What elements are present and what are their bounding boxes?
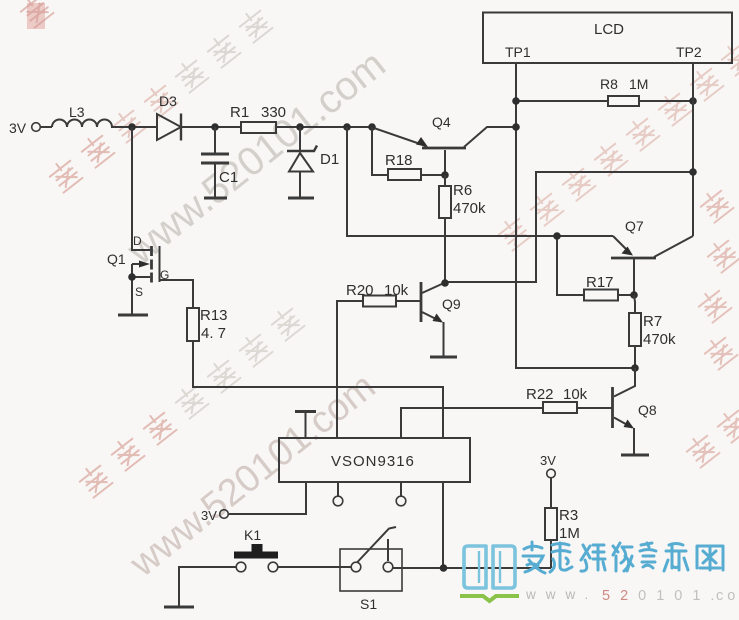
node Q7 base junction	[630, 291, 638, 299]
svg-text:3V: 3V	[540, 453, 556, 468]
svg-text:S: S	[135, 285, 143, 299]
wire rail to diode	[132, 126, 157, 128]
node junction S1/VSON/R3	[440, 564, 448, 572]
node R8 right junction	[689, 97, 697, 105]
node Q4 base junction	[441, 171, 449, 179]
svg-text:3V: 3V	[9, 120, 27, 136]
wire TP1 vertical net	[516, 63, 635, 368]
resistor R6 470k	[439, 175, 451, 283]
switch S1	[340, 527, 402, 591]
resistor R7 470k	[629, 295, 641, 368]
svg-text:10k: 10k	[563, 386, 588, 403]
wire TP2 net to Q9 collector	[445, 172, 693, 282]
resistor R22 10k	[401, 402, 612, 438]
svg-text:3V: 3V	[201, 508, 217, 523]
node R7 bottom junction	[631, 364, 639, 372]
power flag above VSON9316	[295, 412, 316, 439]
svg-text:TP2: TP2	[676, 44, 702, 60]
resistor R17	[557, 236, 634, 301]
zener diode D1	[287, 127, 317, 197]
svg-text:470k: 470k	[643, 331, 676, 348]
svg-text:R17: R17	[586, 274, 614, 291]
svg-text:R6: R6	[453, 182, 472, 199]
site logo green base	[460, 596, 519, 601]
svg-text:Q1: Q1	[107, 251, 126, 267]
svg-text:R1: R1	[230, 104, 249, 121]
resistor R1 330	[241, 122, 276, 133]
svg-text:520101.: 520101.	[602, 588, 724, 604]
svg-text:Q4: Q4	[432, 114, 451, 130]
ground below Q9	[430, 356, 457, 359]
watermarks (decorative)	[46, 6, 273, 193]
svg-text:S1: S1	[360, 596, 377, 612]
svg-text:VSON9316: VSON9316	[331, 453, 415, 470]
svg-text:R18: R18	[385, 152, 413, 169]
transistor Q9 (NPN)	[396, 282, 444, 356]
svg-text:1M: 1M	[629, 76, 648, 92]
wire TP2 vertical net	[692, 63, 694, 236]
node junction rail to R18 branch	[368, 123, 376, 131]
resistor R20 10k	[337, 296, 396, 439]
svg-text:C1: C1	[219, 169, 238, 186]
VSON9316 open pin 1	[333, 482, 343, 506]
wire R1 to Q4 emitter	[276, 126, 374, 128]
ground below Q1 source	[118, 314, 148, 317]
node 3V input terminal	[32, 123, 41, 132]
svg-text:D1: D1	[320, 151, 339, 168]
wire S1 to R3 bottom	[393, 567, 551, 569]
svg-text:TP1: TP1	[505, 44, 531, 60]
node TP1/rail junction	[512, 123, 520, 131]
wire K1 to ground	[179, 567, 236, 606]
svg-text:www.520101.com: www.520101.com	[118, 42, 393, 274]
node Q9 collector junction	[441, 279, 449, 287]
transistor Q8 (NPN)	[613, 368, 636, 454]
node junction at D1	[296, 123, 304, 131]
diode D3	[157, 114, 181, 141]
site logo text (stylized)	[523, 542, 723, 573]
svg-text:Q8: Q8	[638, 402, 657, 418]
node R8 left junction	[512, 97, 520, 105]
svg-text:1M: 1M	[559, 525, 580, 542]
svg-text:R7: R7	[643, 313, 662, 330]
VSON9316 bottom pin to 3V terminal	[220, 482, 306, 518]
ground below K1	[164, 606, 194, 609]
ground below C1	[204, 197, 227, 200]
svg-text:D: D	[133, 234, 142, 248]
svg-text:G: G	[160, 268, 169, 282]
VSON9316 open pin 2	[396, 482, 406, 506]
resistor R8 1M	[516, 96, 693, 106]
wire rail branch x347 down to y236 line	[347, 127, 613, 236]
svg-text:www.: www.	[525, 587, 598, 602]
LCD block U-LCD	[483, 13, 732, 64]
ground below D1	[288, 197, 314, 200]
svg-text:4. 7: 4. 7	[201, 325, 226, 342]
VSON9316 pin down to S1 net	[442, 482, 444, 569]
wire D3 to R1	[181, 126, 241, 128]
site logo book icon	[464, 546, 515, 588]
node TP2 branch junction	[689, 168, 697, 176]
ground below Q8	[621, 454, 649, 457]
svg-text:R13: R13	[200, 307, 228, 324]
node junction at L3/Q1 drain	[128, 123, 136, 131]
svg-text:Q7: Q7	[625, 218, 644, 234]
node junction rail to Q7-emitter branch	[343, 123, 351, 131]
svg-text:470k: 470k	[453, 200, 486, 217]
inductor L3	[41, 120, 133, 127]
svg-text:K1: K1	[244, 527, 261, 543]
svg-text:330: 330	[261, 104, 286, 121]
svg-text:L3: L3	[69, 104, 85, 120]
svg-text:R20: R20	[346, 282, 374, 299]
svg-text:Q9: Q9	[442, 296, 461, 312]
svg-text:R8: R8	[600, 76, 618, 92]
push button K1	[234, 544, 278, 572]
resistor R13 4.7	[187, 308, 443, 438]
svg-text:10k: 10k	[384, 282, 409, 299]
resistor R3 1M	[545, 469, 557, 568]
wire K1 to S1	[278, 566, 351, 568]
svg-text:D3: D3	[159, 93, 177, 109]
transistor Q1 (MOSFET)	[132, 127, 193, 314]
transistor Q4 (PNP)	[374, 127, 516, 175]
svg-text:R22: R22	[526, 386, 554, 403]
svg-text:LCD: LCD	[594, 21, 624, 38]
node junction at C1	[211, 123, 219, 131]
capacitor C1	[201, 127, 229, 197]
node y236/R17 junction	[553, 232, 561, 240]
svg-text:R3: R3	[559, 507, 578, 524]
svg-text:com: com	[716, 588, 739, 604]
transistor Q7 (PNP)	[611, 236, 693, 295]
resistor R18	[372, 127, 445, 180]
IC U1 VSON9316	[279, 438, 470, 482]
